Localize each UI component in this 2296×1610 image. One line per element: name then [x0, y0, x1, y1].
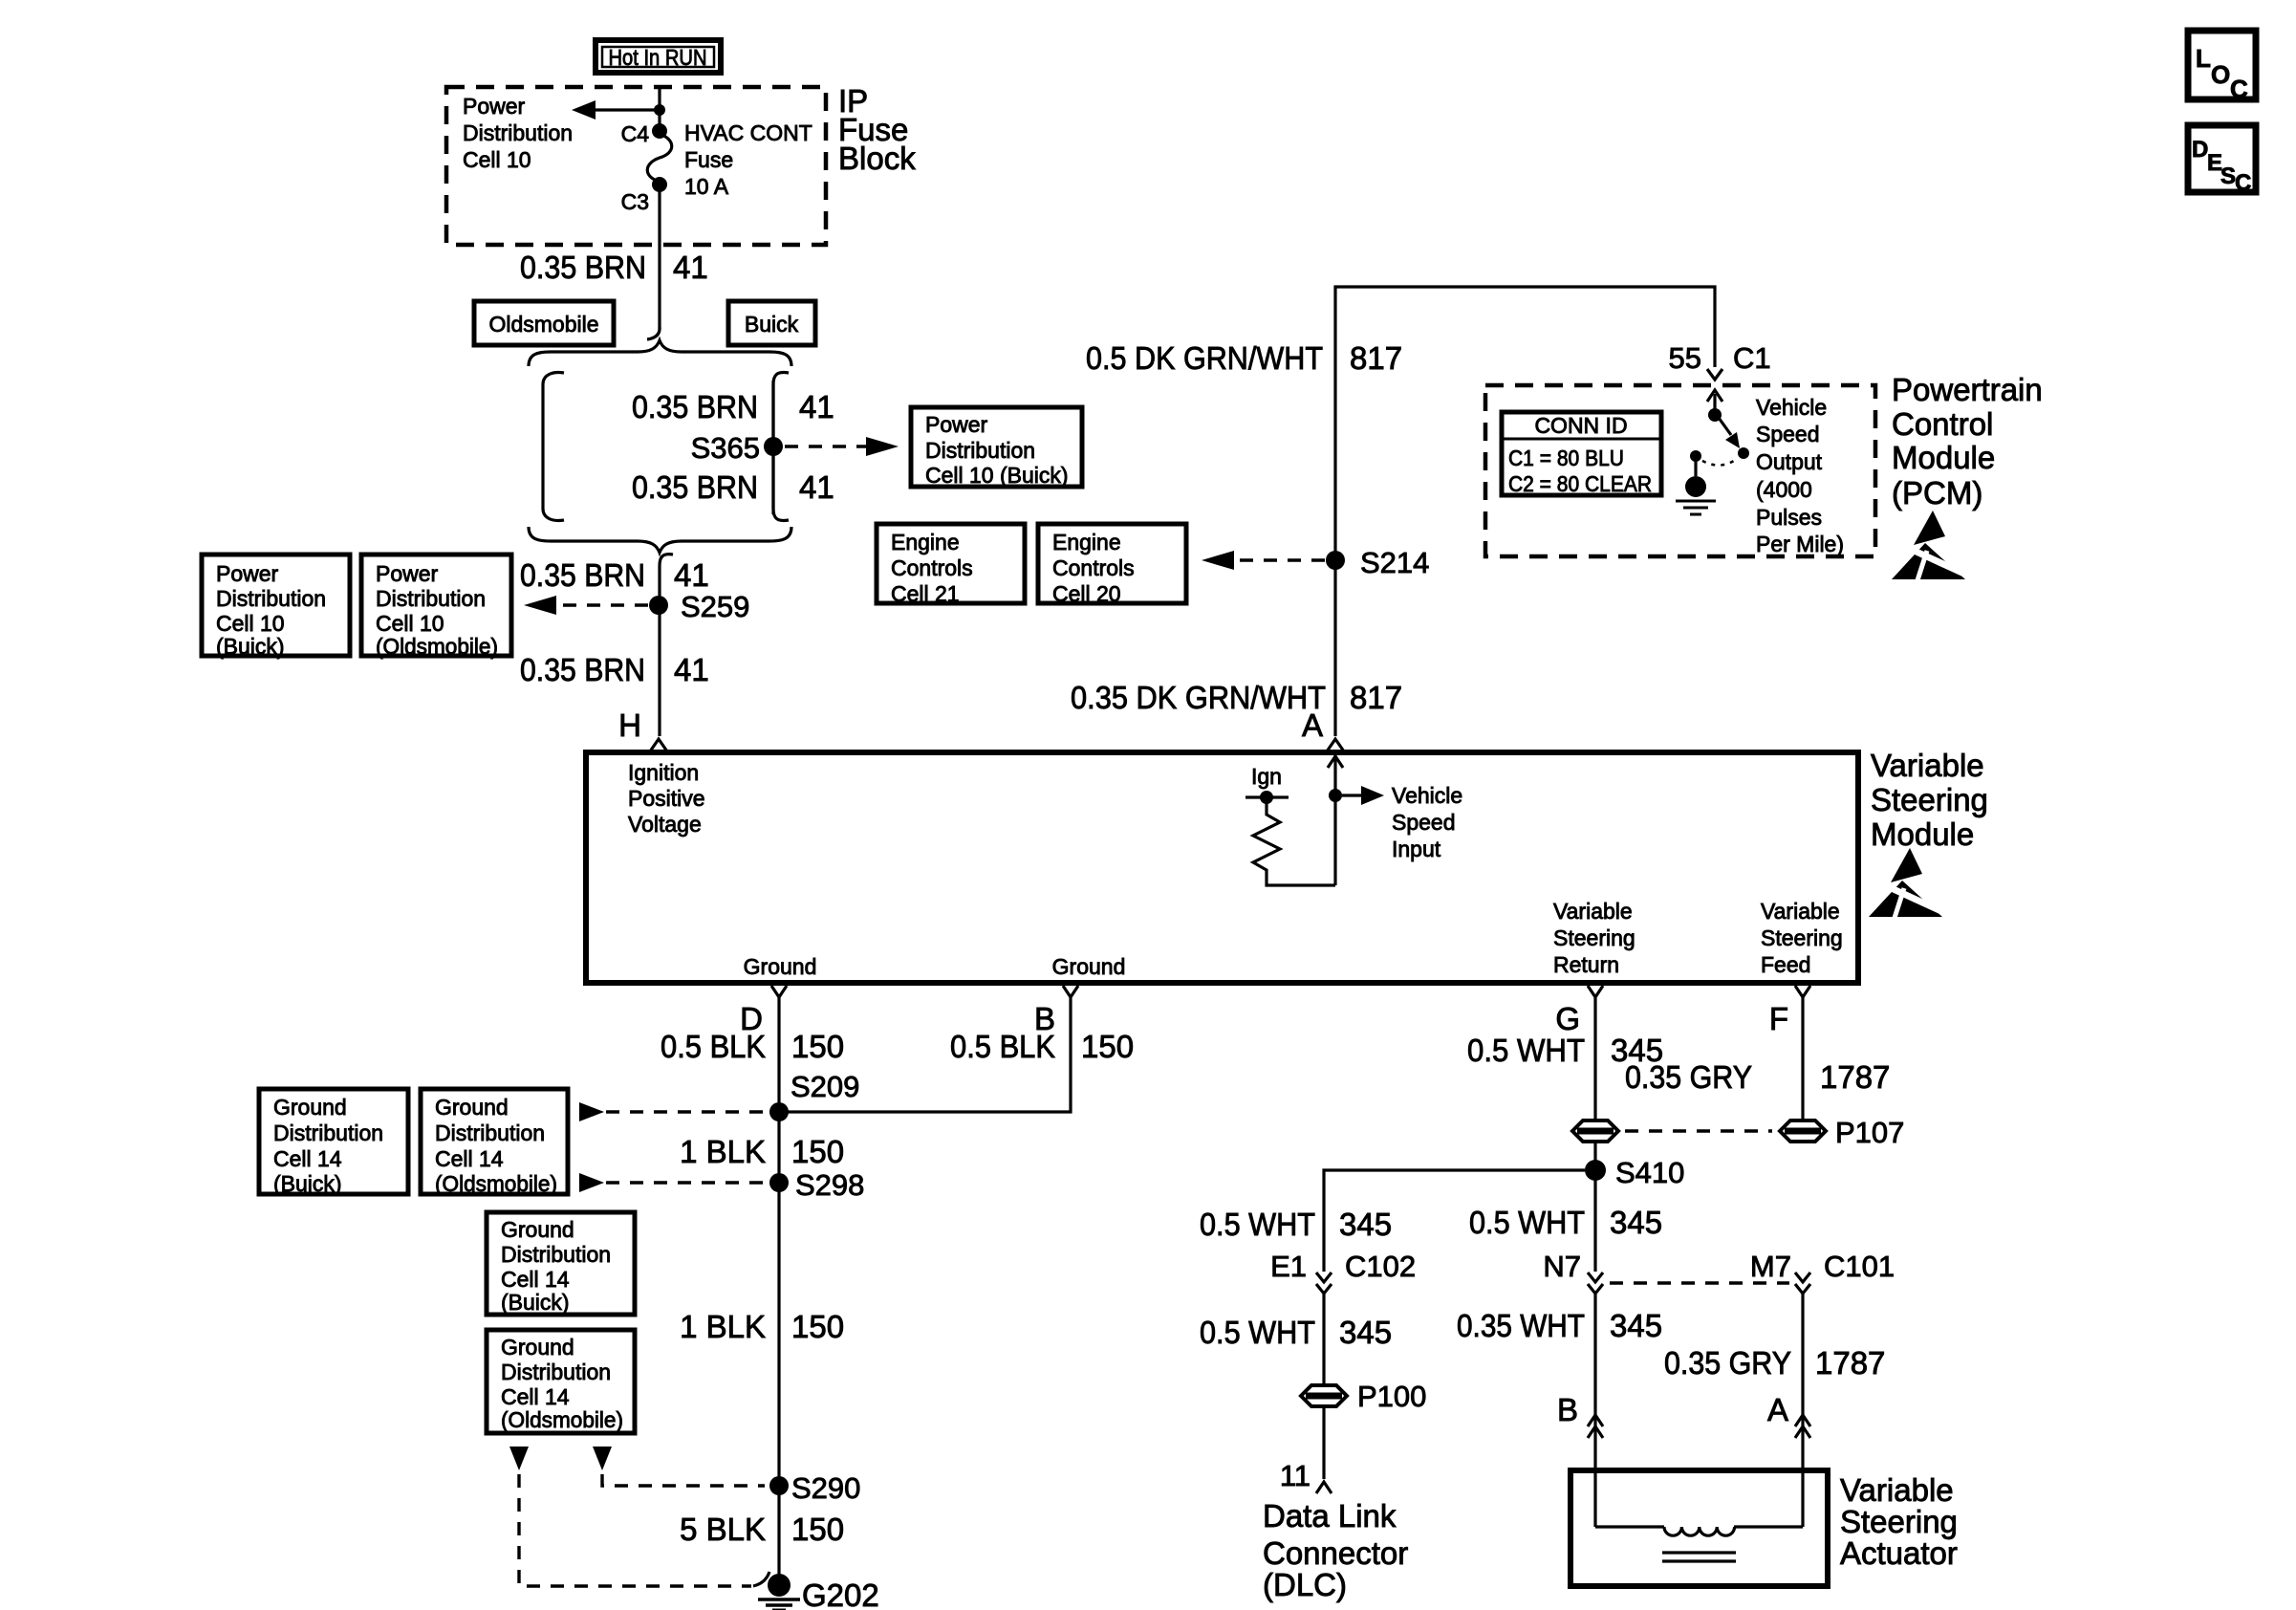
splice S209 — [769, 1070, 859, 1121]
dashed arrow S259 to Power Distribution cells — [524, 596, 648, 615]
svg-text:41: 41 — [673, 250, 708, 285]
wire: vehicle speed input from pin A — [1328, 755, 1343, 885]
label Ground (pin B) — [1052, 954, 1126, 979]
svg-text:S209: S209 — [791, 1070, 859, 1103]
svg-text:Per Mile): Per Mile) — [1756, 532, 1844, 556]
dashed arrow row2 boxes left leg to G202 — [509, 1447, 769, 1586]
wire label 0.5 WHT 345 (S410 to N7) — [1469, 1205, 1662, 1240]
svg-text:11: 11 — [1280, 1459, 1310, 1492]
svg-text:Ground: Ground — [501, 1335, 574, 1360]
svg-text:345: 345 — [1610, 1308, 1662, 1343]
svg-text:S298: S298 — [795, 1168, 864, 1202]
label "Ignition Positive Voltage" (pin H) — [628, 760, 705, 837]
svg-text:Power: Power — [216, 561, 279, 586]
ESD symbol (PCM) — [1892, 511, 1966, 580]
svg-text:C4: C4 — [621, 121, 650, 146]
splice S290 — [769, 1471, 860, 1505]
svg-text:C: C — [2235, 170, 2251, 196]
svg-text:Engine: Engine — [1052, 530, 1121, 555]
resistor (pull-up to Ign) — [1253, 802, 1335, 885]
pin B of actuator — [1557, 1392, 1603, 1438]
dashed arrow S298 to Ground Distribution — [579, 1173, 767, 1192]
svg-text:Module: Module — [1871, 816, 1974, 852]
svg-text:Distribution: Distribution — [273, 1120, 383, 1145]
svg-text:C: C — [2230, 75, 2248, 103]
wire label 0.35 BRN 41 (upper, Buick leg) — [632, 389, 834, 424]
wire label 0.5 WHT 345 (pin G) — [1467, 1033, 1663, 1068]
in-line connector P107 (G wire) — [1572, 1120, 1618, 1142]
svg-text:(Oldsmobile): (Oldsmobile) — [435, 1171, 557, 1196]
svg-text:Ign: Ign — [1251, 764, 1282, 789]
dashed arrow S365 to Power Distribution Cell 10 (Buick) — [785, 437, 899, 456]
svg-text:Controls: Controls — [891, 555, 973, 580]
svg-text:Steering: Steering — [1840, 1504, 1958, 1539]
variant bracket left (Oldsmobile leg) — [543, 373, 564, 521]
svg-text:0.5 BLK: 0.5 BLK — [661, 1029, 766, 1064]
svg-text:P107: P107 — [1835, 1116, 1904, 1149]
svg-text:5 BLK: 5 BLK — [680, 1512, 766, 1547]
svg-text:Ground: Ground — [435, 1095, 509, 1120]
svg-text:Ground: Ground — [1052, 954, 1126, 979]
svg-text:N7: N7 — [1543, 1250, 1581, 1283]
pin G — [1555, 986, 1603, 1036]
svg-text:1787: 1787 — [1815, 1345, 1885, 1381]
label box Ground Distribution Cell 14 (Buick) row2 — [487, 1212, 635, 1315]
pin M7 connector C101 — [1750, 1250, 1895, 1294]
svg-text:0.35 WHT: 0.35 WHT — [1457, 1308, 1585, 1343]
svg-text:Variable: Variable — [1761, 899, 1840, 924]
svg-text:150: 150 — [791, 1309, 844, 1344]
svg-text:0.35 BRN: 0.35 BRN — [632, 389, 758, 424]
svg-text:Cell 14: Cell 14 — [501, 1384, 570, 1409]
svg-text:Steering: Steering — [1553, 925, 1635, 950]
svg-text:1 BLK: 1 BLK — [680, 1309, 766, 1344]
svg-text:C102: C102 — [1345, 1250, 1416, 1283]
svg-text:Cell 14: Cell 14 — [435, 1146, 504, 1171]
svg-text:Power: Power — [925, 412, 988, 437]
svg-text:(PCM): (PCM) — [1892, 475, 1982, 511]
svg-text:Distribution: Distribution — [216, 586, 326, 611]
pin 11 of DLC — [1280, 1459, 1332, 1493]
svg-text:M7: M7 — [1750, 1250, 1791, 1283]
svg-text:S290: S290 — [791, 1471, 860, 1505]
svg-text:10 A: 10 A — [684, 174, 729, 199]
label box Power Distribution Cell 10 (Buick) — [911, 407, 1082, 488]
svg-text:Distribution: Distribution — [463, 120, 573, 145]
IP Fuse Block dashed enclosure — [446, 83, 916, 245]
svg-text:1787: 1787 — [1820, 1059, 1890, 1095]
svg-text:Connector: Connector — [1263, 1535, 1408, 1571]
label Data Link Connector (DLC) — [1263, 1498, 1408, 1602]
svg-text:(4000: (4000 — [1756, 477, 1812, 502]
wire label 0.35 BRN 41 — [520, 250, 708, 285]
svg-text:345: 345 — [1339, 1315, 1392, 1350]
label "Vehicle Speed Output (4000 Pulses Per Mile)" — [1756, 395, 1844, 556]
svg-text:0.5 BLK: 0.5 BLK — [950, 1029, 1055, 1064]
svg-text:Variable: Variable — [1553, 899, 1633, 924]
ground G202 — [758, 1574, 879, 1610]
svg-text:D: D — [2192, 137, 2208, 163]
svg-text:Cell 10: Cell 10 — [376, 611, 444, 636]
svg-text:Voltage: Voltage — [628, 812, 702, 837]
svg-text:150: 150 — [791, 1512, 844, 1547]
variant brace top — [529, 340, 791, 366]
in-line connector P100 — [1301, 1380, 1426, 1413]
arrow to Power Distribution Cell 10 — [572, 100, 665, 120]
label box "Hot In RUN" — [596, 40, 721, 73]
svg-text:C3: C3 — [621, 189, 649, 214]
svg-text:Cell 10: Cell 10 — [463, 147, 531, 172]
svg-text:41: 41 — [674, 557, 709, 593]
svg-text:Output: Output — [1756, 449, 1823, 474]
svg-text:55: 55 — [1669, 341, 1701, 375]
wire label 1 BLK 150 (S209-S298) — [680, 1134, 844, 1169]
pin A of Variable Steering Module — [1302, 707, 1344, 751]
wire: variable steering feed from pin F — [1801, 997, 1804, 1120]
svg-text:Cell 20: Cell 20 — [1052, 581, 1121, 606]
Powertrain Control Module dashed enclosure — [1485, 372, 2043, 556]
wire: C102 to DLC pin 11 — [1322, 1294, 1325, 1479]
CONN ID table — [1502, 412, 1661, 496]
svg-text:HVAC CONT: HVAC CONT — [684, 120, 812, 145]
svg-text:Return: Return — [1553, 952, 1619, 977]
svg-text:817: 817 — [1350, 340, 1402, 376]
svg-text:Buick: Buick — [745, 312, 799, 337]
svg-text:0.5 DK GRN/WHT: 0.5 DK GRN/WHT — [1086, 340, 1323, 376]
label Ground (pin D) — [744, 954, 817, 979]
splice S298 — [769, 1168, 864, 1202]
label box Ground Distribution Cell 14 (Buick) row1 — [259, 1089, 408, 1196]
label Ign — [1251, 764, 1282, 789]
svg-text:B: B — [1557, 1392, 1578, 1427]
svg-text:1 BLK: 1 BLK — [680, 1134, 766, 1169]
splice S365 — [691, 431, 783, 465]
svg-text:Controls: Controls — [1052, 555, 1135, 580]
svg-text:Distribution: Distribution — [376, 586, 486, 611]
wire: PCM 817 circuit from pin A up and over to PCM pin 55 — [1335, 287, 1715, 736]
pin C3 — [621, 177, 667, 214]
pin 55 C1 of PCM — [1669, 341, 1771, 380]
label Variable Steering Return (pin G) — [1553, 899, 1635, 977]
wire label 5 BLK 150 — [680, 1512, 844, 1547]
svg-text:Block: Block — [838, 141, 916, 176]
svg-text:0.35 BRN: 0.35 BRN — [632, 469, 758, 505]
ground inside PCM — [1676, 460, 1716, 514]
svg-text:H: H — [618, 707, 641, 743]
label box Buick — [728, 301, 815, 345]
svg-text:(Oldsmobile): (Oldsmobile) — [501, 1407, 623, 1432]
svg-text:Cell 10: Cell 10 — [216, 611, 285, 636]
LOC reference box — [2188, 31, 2256, 103]
svg-text:G202: G202 — [802, 1577, 879, 1610]
wire label 0.35 BRN 41 (above S259) — [520, 557, 709, 593]
svg-text:A: A — [1302, 707, 1323, 743]
wire label 0.35 BRN 41 (above pin H) — [520, 652, 709, 687]
svg-text:0.35 DK GRN/WHT: 0.35 DK GRN/WHT — [1071, 680, 1326, 715]
internal Ign supply bar — [1245, 791, 1289, 804]
svg-text:S: S — [2220, 163, 2236, 189]
svg-text:F: F — [1769, 1001, 1788, 1036]
svg-text:L: L — [2196, 44, 2211, 73]
wire: G connector to S410 and down to C102/N7 — [1593, 1142, 1596, 1272]
svg-text:Engine: Engine — [891, 530, 960, 555]
label box Oldsmobile — [474, 301, 614, 345]
Variable Steering Actuator box — [1570, 1470, 1958, 1586]
svg-text:Cell 10 (Buick): Cell 10 (Buick) — [925, 463, 1069, 488]
svg-text:Ignition: Ignition — [628, 760, 699, 785]
solenoid coil inside actuator — [1595, 1527, 1803, 1561]
svg-text:E1: E1 — [1270, 1250, 1307, 1283]
wire: N7 to actuator pin B — [1593, 1294, 1596, 1527]
svg-text:Pulses: Pulses — [1756, 505, 1822, 530]
switch: vehicle speed output driver inside PCM — [1690, 390, 1749, 466]
dashed connector tie P107 — [1625, 1129, 1772, 1132]
wire: M7 to actuator pin A — [1801, 1294, 1804, 1527]
in-line connector P107 (F wire) — [1780, 1116, 1904, 1149]
svg-text:0.35 GRY: 0.35 GRY — [1664, 1345, 1791, 1381]
svg-text:Cell 21: Cell 21 — [891, 581, 960, 606]
svg-text:0.5 WHT: 0.5 WHT — [1469, 1205, 1585, 1240]
wire label 0.5 WHT 345 (DLC branch) — [1200, 1207, 1392, 1242]
label box Engine Controls Cell 21 — [877, 524, 1025, 606]
svg-text:Vehicle: Vehicle — [1756, 395, 1827, 420]
svg-text:345: 345 — [1339, 1207, 1392, 1242]
svg-text:0.35 GRY: 0.35 GRY — [1625, 1059, 1752, 1095]
wire label 0.35 WHT 345 — [1457, 1308, 1662, 1343]
svg-text:P100: P100 — [1357, 1380, 1426, 1413]
wire label 0.35 DK GRN/WHT 817 — [1071, 680, 1402, 715]
svg-text:S214: S214 — [1360, 546, 1429, 579]
svg-text:41: 41 — [799, 469, 834, 505]
svg-text:A: A — [1767, 1392, 1788, 1427]
svg-text:(Buick): (Buick) — [501, 1290, 570, 1315]
pin H of Variable Steering Module — [618, 707, 667, 751]
svg-text:0.35 BRN: 0.35 BRN — [520, 652, 645, 687]
pin F — [1769, 986, 1810, 1036]
wire: ground from pin B to S209 — [788, 997, 1071, 1112]
svg-text:(Oldsmobile): (Oldsmobile) — [376, 634, 498, 659]
dashed arrow S214 to Engine Controls — [1202, 551, 1325, 570]
wire: fuse output down to variant split — [647, 187, 660, 339]
svg-text:Feed: Feed — [1761, 952, 1810, 977]
label box Power Distribution Cell 10 (Buick) left — [202, 555, 350, 659]
svg-text:G: G — [1555, 1001, 1580, 1036]
svg-text:C1 = 80 BLU: C1 = 80 BLU — [1508, 446, 1624, 470]
dashed arrow row2 boxes right leg to S290 — [593, 1447, 765, 1486]
svg-text:Distribution: Distribution — [925, 438, 1035, 463]
label box Power Distribution Cell 10 (Oldsmobile) — [361, 555, 511, 659]
svg-text:345: 345 — [1610, 1205, 1662, 1240]
svg-text:CONN ID: CONN ID — [1534, 413, 1627, 438]
svg-text:Actuator: Actuator — [1840, 1535, 1958, 1571]
svg-text:Data Link: Data Link — [1263, 1498, 1397, 1534]
dashed arrow S209 to Ground Distribution — [579, 1102, 767, 1121]
splice S410 — [1585, 1156, 1684, 1189]
svg-text:Speed: Speed — [1392, 810, 1456, 835]
svg-text:Module: Module — [1892, 440, 1995, 475]
svg-text:Cell 14: Cell 14 — [501, 1267, 570, 1292]
wire label 0.5 WHT 345 (C102 to P100) — [1200, 1315, 1392, 1350]
wire: branch from S410 to DLC — [1324, 1170, 1585, 1272]
svg-text:S410: S410 — [1615, 1156, 1684, 1189]
svg-text:41: 41 — [674, 652, 709, 687]
label Variable Steering Feed (pin F) — [1761, 899, 1843, 977]
wire label 0.35 GRY 1787 (pin F) — [1625, 1059, 1890, 1095]
svg-text:Positive: Positive — [628, 786, 705, 811]
variant brace bottom — [529, 527, 791, 553]
svg-text:Variable: Variable — [1840, 1472, 1954, 1508]
label "Power Distribution Cell 10" (in fuse block) — [463, 94, 573, 172]
splice S214 — [1326, 546, 1429, 579]
svg-text:C101: C101 — [1824, 1250, 1895, 1283]
svg-text:C1: C1 — [1733, 341, 1771, 375]
svg-text:Ground: Ground — [501, 1217, 574, 1242]
svg-text:Hot In RUN: Hot In RUN — [609, 45, 707, 70]
svg-text:817: 817 — [1350, 680, 1402, 715]
svg-text:Variable: Variable — [1871, 748, 1984, 783]
svg-text:41: 41 — [799, 389, 834, 424]
Variable Steering Module box — [586, 748, 1988, 983]
svg-text:Ground: Ground — [273, 1095, 347, 1120]
label box Ground Distribution Cell 14 (Oldsmobile) row2 — [487, 1330, 635, 1433]
wire label 0.35 GRY 1787 (lower) — [1664, 1345, 1885, 1381]
svg-text:Ground: Ground — [744, 954, 817, 979]
svg-text:Distribution: Distribution — [435, 1120, 545, 1145]
wire label 0.35 BRN 41 (lower, Buick leg) — [632, 469, 834, 505]
wire: feed from Hot In RUN into fuse — [658, 85, 661, 125]
svg-text:150: 150 — [791, 1029, 844, 1064]
wire label 0.5 BLK 150 (pin D) — [661, 1029, 844, 1064]
svg-text:Steering: Steering — [1871, 782, 1988, 817]
svg-text:Vehicle: Vehicle — [1392, 783, 1462, 808]
svg-text:S259: S259 — [681, 590, 749, 623]
wire label 0.5 BLK 150 (pin B) — [950, 1029, 1134, 1064]
arrow Vehicle Speed Input — [1342, 783, 1462, 861]
svg-text:(Buick): (Buick) — [273, 1171, 342, 1196]
svg-text:Steering: Steering — [1761, 925, 1843, 950]
svg-text:150: 150 — [791, 1134, 844, 1169]
wire: Buick leg with hooks — [773, 373, 789, 521]
svg-text:Power: Power — [376, 561, 439, 586]
svg-text:Input: Input — [1392, 837, 1441, 861]
svg-text:Power: Power — [463, 94, 526, 119]
svg-text:Fuse: Fuse — [684, 147, 733, 172]
wire label 1 BLK 150 (S298-S290) — [680, 1309, 844, 1344]
fuse HVAC CONT 10 A — [647, 120, 812, 199]
svg-text:O: O — [2211, 60, 2230, 89]
svg-text:0.35 BRN: 0.35 BRN — [520, 250, 646, 285]
splice S259 — [649, 590, 749, 623]
svg-text:0.35 BRN: 0.35 BRN — [520, 557, 645, 593]
svg-text:0.5 WHT: 0.5 WHT — [1200, 1315, 1315, 1350]
pin E1 connector C102 — [1270, 1250, 1416, 1294]
wire: recombined output below brace — [660, 555, 673, 736]
svg-text:Distribution: Distribution — [501, 1360, 611, 1384]
dashed connector tie C101 — [1610, 1281, 1789, 1284]
label box Engine Controls Cell 20 — [1038, 524, 1186, 606]
svg-text:Control: Control — [1892, 406, 1993, 442]
label box Ground Distribution Cell 14 (Oldsmobile) row1 — [421, 1089, 568, 1196]
svg-text:Oldsmobile: Oldsmobile — [488, 312, 598, 337]
DESC reference box — [2188, 125, 2256, 196]
svg-text:0.5 WHT: 0.5 WHT — [1200, 1207, 1315, 1242]
pin D — [740, 986, 787, 1036]
wire: ground from pin D to G202 — [777, 997, 780, 1577]
pin C4 — [621, 121, 667, 146]
svg-text:Distribution: Distribution — [501, 1242, 611, 1267]
svg-text:C2 = 80 CLEAR: C2 = 80 CLEAR — [1508, 471, 1652, 496]
svg-text:150: 150 — [1081, 1029, 1134, 1064]
svg-text:Speed: Speed — [1756, 422, 1820, 446]
pin B — [1034, 986, 1078, 1036]
svg-text:(Buick): (Buick) — [216, 634, 285, 659]
svg-text:0.5 WHT: 0.5 WHT — [1467, 1033, 1585, 1068]
pin A of actuator — [1767, 1392, 1810, 1438]
wire label 0.5 DK GRN/WHT 817 — [1086, 340, 1402, 376]
ESD symbol (Variable Steering Module) — [1869, 848, 1943, 918]
wire: variable steering return from pin G — [1593, 997, 1596, 1120]
svg-text:Cell 14: Cell 14 — [273, 1146, 342, 1171]
svg-text:S365: S365 — [691, 431, 760, 465]
svg-text:Powertrain: Powertrain — [1892, 372, 2043, 407]
svg-text:(DLC): (DLC) — [1263, 1567, 1347, 1602]
pin N7 connector C101 — [1543, 1250, 1603, 1294]
